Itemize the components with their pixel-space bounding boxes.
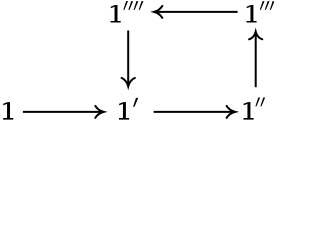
arrow 1-quadprime to 1-prime : head [122,78,135,87]
arrow 1-prime to 1-doubleprime : shaft [154,111,234,113]
node 1-quadprime digit (top-left) [111,5,121,23]
arrow 1-tripleprime to 1-quadprime : head [154,6,162,18]
arrow 1-tripleprime to 1-quadprime : shaft [155,11,238,13]
node 1-doubleprime digit (bottom-right) [244,102,254,120]
node 1 (bottom-left) [3,102,13,120]
arrow 1-quadprime to 1-prime : shaft [127,31,129,86]
arrow 1 to 1-prime : shaft [23,111,103,113]
arrow 1-doubleprime to 1-tripleprime : head [249,32,262,40]
arrow 1-doubleprime to 1-tripleprime : shaft [255,32,257,87]
arrow 1-prime to 1-doubleprime : head [227,106,236,118]
node 1-quadprime prime marks [123,1,143,10]
node 1-prime digit (bottom-middle) [119,102,129,120]
node 1-tripleprime digit (top-right) [247,5,257,23]
node 1-prime prime mark [133,98,138,107]
node 1-tripleprime prime marks [260,1,275,10]
node 1-doubleprime prime marks [255,98,265,107]
arrow 1 to 1-prime : head [95,106,103,118]
